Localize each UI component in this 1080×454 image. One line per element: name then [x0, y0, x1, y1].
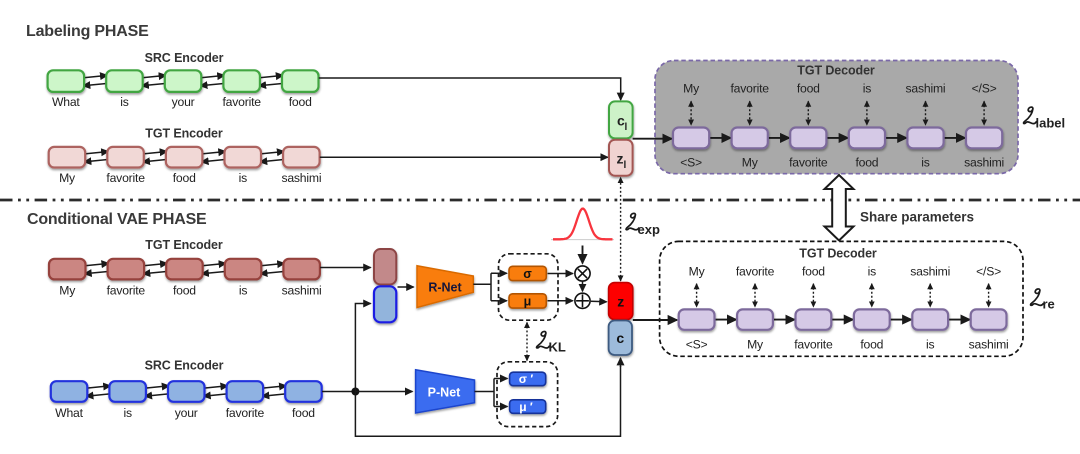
bot-dec output arrow 2 [754, 284, 756, 307]
wire: junction to P-Net [355, 391, 412, 393]
bot-dec output arrow 3 [812, 284, 814, 307]
bot-dec output arrow 1 [696, 284, 698, 307]
R-Net trapezoid [417, 266, 473, 308]
svg-text:TGT Encoder: TGT Encoder [145, 127, 223, 141]
op oplus [575, 293, 590, 308]
svg-text:is: is [239, 171, 248, 185]
bottom TGT Decoder container [660, 241, 1023, 356]
svg-text:is: is [921, 156, 930, 170]
svg-text:σ ′: σ ′ [519, 372, 534, 386]
svg-text:TGT Decoder: TGT Decoder [799, 247, 877, 261]
wire: P-Net to sigma-prime/mu-prime bracket [475, 379, 499, 407]
TGT-enc-bot cell 5 [283, 259, 320, 280]
svg-text:food: food [289, 95, 312, 109]
svg-text:is: is [863, 82, 872, 96]
top-dec arrow 5-6 [943, 137, 966, 139]
TGT-enc-top link 2-3 [141, 152, 169, 162]
top-dec cell 2 [732, 128, 768, 149]
svg-text:food: food [860, 338, 883, 352]
TGT-enc-bot link 1-2 [83, 263, 111, 273]
bot-dec arrow 4-5 [889, 319, 912, 321]
node z_l [609, 140, 633, 176]
TGT-enc-bot link 2-3 [141, 263, 169, 273]
SRC-enc-bot link 3-4 [202, 386, 230, 396]
wire oplus to z [591, 300, 607, 303]
svg-text:μ ′: μ ′ [519, 400, 533, 414]
top-dec output arrow 1 [690, 101, 692, 125]
svg-text:<S>: <S> [686, 338, 708, 352]
bot-dec arrow 3-4 [830, 319, 853, 321]
svg-text:food: food [173, 284, 196, 298]
svg-text:sashimi: sashimi [906, 82, 946, 96]
svg-text:favorite: favorite [789, 156, 828, 170]
TGT-enc-bot link 3-4 [200, 263, 228, 273]
bot-dec arrow 1-2 [714, 319, 737, 321]
svg-text:My: My [689, 265, 706, 279]
top-dec arrow 4-5 [884, 137, 907, 139]
wire: junction up to q-blue box [355, 304, 358, 392]
SRC-enc-top cell 5 [282, 70, 319, 92]
node mu-prime [510, 400, 546, 414]
bot-dec cell 5 [912, 309, 948, 329]
top-dec arrow 3-4 [825, 137, 848, 139]
TGT-enc-bot cell 3 [166, 259, 203, 280]
svg-text:<S>: <S> [680, 156, 702, 170]
top-dec cell 5 [907, 128, 943, 149]
top-dec output arrow 3 [807, 101, 809, 125]
svg-text:z: z [617, 294, 624, 310]
bot-dec cell 6 [971, 309, 1007, 329]
wire: blue encoder to junction [322, 391, 355, 393]
top-dec cell 1 [673, 128, 709, 149]
bot-dec cell 2 [737, 309, 773, 329]
svg-text:sashimi: sashimi [282, 284, 322, 298]
svg-text:sashimi: sashimi [969, 338, 1009, 352]
TGT-enc-top link 3-4 [199, 152, 227, 162]
recognition params dashed box [499, 254, 559, 320]
svg-text:My: My [742, 156, 759, 170]
svg-text:c: c [616, 330, 624, 346]
svg-text:R-Net: R-Net [428, 281, 462, 295]
svg-text:</S>: </S> [972, 82, 997, 96]
svg-text:favorite: favorite [223, 95, 262, 109]
L_exp dotted arrow z to z_l [620, 178, 622, 281]
svg-text:TGT Encoder: TGT Encoder [145, 238, 223, 252]
node: recognition blue box [374, 286, 396, 322]
TGT-enc-top link 1-2 [82, 152, 110, 162]
SRC-enc-top link 2-3 [140, 75, 168, 85]
svg-text:favorite: favorite [731, 82, 770, 96]
top-dec cell 6 [966, 128, 1002, 149]
SRC-enc-bot cell 1 [51, 381, 88, 402]
svg-text:Labeling PHASE: Labeling PHASE [26, 23, 149, 40]
svg-text:exp: exp [638, 222, 660, 237]
node c [609, 321, 632, 356]
svg-text:favorite: favorite [794, 338, 833, 352]
gaussian curve [551, 209, 614, 240]
svg-text:sashimi: sashimi [910, 265, 950, 279]
junction node [351, 388, 359, 396]
top-dec output arrow 4 [866, 101, 868, 125]
node: recognition pink box [374, 249, 396, 285]
top TGT Decoder container [655, 61, 1018, 174]
TGT-enc-top link 4-5 [258, 152, 286, 162]
svg-text:is: is [123, 406, 132, 420]
wire: gaussian to otimes [582, 246, 584, 264]
P-Net trapezoid [416, 370, 475, 413]
wire: z/c to bottom decoder [633, 319, 677, 321]
top-dec output arrow 5 [925, 101, 927, 125]
svg-text:is: is [868, 265, 877, 279]
svg-text:favorite: favorite [107, 284, 146, 298]
svg-text:favorite: favorite [106, 171, 145, 185]
bot-dec arrow 5-6 [947, 319, 970, 321]
wire: green encoder to c_l [319, 78, 621, 94]
TGT-enc-top cell 1 [49, 147, 85, 168]
loss L_exp [626, 213, 660, 237]
share parameters hollow arrow [825, 175, 854, 241]
svg-text:σ: σ [523, 267, 532, 281]
bot-dec arrow 2-3 [772, 319, 795, 321]
svg-text:sashimi: sashimi [281, 171, 321, 185]
bot-dec output arrow 4 [871, 284, 873, 307]
TGT-enc-top cell 4 [225, 147, 262, 168]
svg-text:KL: KL [549, 340, 566, 355]
bot-dec cell 3 [796, 309, 832, 329]
node c_l [609, 101, 633, 138]
svg-text:l: l [625, 122, 628, 133]
wire: R-Net to sigma/mu bracket [473, 273, 496, 301]
svg-text:your: your [175, 406, 198, 420]
top-dec output arrow 2 [749, 101, 751, 125]
svg-text:is: is [926, 338, 935, 352]
svg-text:favorite: favorite [736, 265, 775, 279]
prior params dashed box [497, 362, 558, 427]
top-dec arrow 1-2 [708, 137, 731, 139]
svg-text:food: food [855, 156, 878, 170]
svg-text:</S>: </S> [976, 265, 1001, 279]
svg-text:What: What [52, 95, 80, 109]
svg-text:What: What [55, 406, 83, 420]
SRC-enc-top link 4-5 [257, 75, 285, 85]
wire otimes to oplus [582, 281, 584, 291]
SRC-enc-bot cell 5 [285, 381, 322, 402]
svg-text:label: label [1036, 116, 1066, 131]
wire: pink encoder to z_l [320, 156, 608, 158]
node z [609, 283, 633, 320]
top-dec arrow 2-3 [767, 137, 790, 139]
TGT-enc-bot cell 1 [49, 259, 86, 280]
TGT-enc-top cell 5 [283, 147, 320, 168]
L_KL dashed arrow [526, 323, 528, 361]
svg-text:P-Net: P-Net [428, 386, 461, 400]
bot-dec cell 1 [679, 309, 715, 329]
svg-text:is: is [239, 284, 248, 298]
wire: junction down and right to c [355, 366, 620, 436]
svg-text:My: My [683, 82, 700, 96]
SRC-enc-bot cell 2 [109, 381, 145, 402]
TGT-enc-bot link 4-5 [258, 263, 286, 273]
phase divider line [0, 199, 1080, 202]
svg-text:re: re [1043, 297, 1055, 312]
top-dec cell 4 [849, 128, 885, 149]
svg-text:l: l [624, 160, 627, 171]
node mu [509, 294, 546, 309]
svg-text:My: My [59, 171, 76, 185]
svg-text:My: My [59, 284, 76, 298]
SRC-enc-bot link 4-5 [260, 386, 288, 396]
svg-text:Share parameters: Share parameters [860, 210, 974, 225]
SRC-enc-bot link 2-3 [143, 386, 171, 396]
SRC-enc-top cell 1 [48, 70, 85, 92]
svg-text:SRC Encoder: SRC Encoder [145, 51, 224, 65]
svg-text:Conditional VAE PHASE: Conditional VAE PHASE [27, 211, 207, 228]
bot-dec cell 4 [854, 309, 890, 329]
svg-text:food: food [292, 406, 315, 420]
TGT-enc-bot cell 2 [108, 259, 145, 280]
svg-text:food: food [802, 265, 825, 279]
svg-text:your: your [172, 95, 195, 109]
TGT-enc-top cell 3 [166, 147, 203, 168]
top-dec output arrow 6 [983, 101, 985, 125]
svg-text:μ: μ [524, 295, 532, 309]
loss L_KL [537, 332, 566, 355]
TGT-enc-bot cell 4 [225, 259, 261, 280]
wire sigma to otimes [548, 273, 573, 275]
node sigma [509, 266, 546, 281]
svg-text:My: My [747, 338, 764, 352]
svg-text:is: is [120, 95, 129, 109]
node sigma-prime [510, 372, 546, 386]
SRC-enc-bot cell 4 [227, 381, 264, 402]
SRC-enc-top cell 3 [165, 70, 202, 92]
SRC-enc-top cell 2 [106, 70, 143, 92]
bot-dec output arrow 6 [988, 284, 990, 307]
wire: stacked boxes to R-Net [398, 286, 414, 288]
top-dec cell 3 [790, 128, 826, 149]
SRC-enc-bot cell 3 [168, 381, 205, 402]
svg-text:z: z [617, 151, 624, 167]
svg-text:sashimi: sashimi [964, 156, 1004, 170]
SRC-enc-top link 1-2 [81, 75, 109, 85]
TGT-enc-top cell 2 [107, 147, 144, 168]
wire: c_l/z_l to top decoder [633, 138, 672, 140]
loss L_re [1031, 289, 1055, 312]
wire mu to oplus [548, 300, 573, 302]
svg-text:food: food [173, 171, 196, 185]
svg-text:favorite: favorite [226, 406, 265, 420]
svg-text:food: food [797, 82, 820, 96]
SRC-enc-bot link 1-2 [84, 386, 112, 396]
SRC-enc-top cell 4 [223, 70, 260, 92]
loss L_label [1024, 107, 1066, 130]
SRC-enc-top link 3-4 [198, 75, 226, 85]
svg-text:TGT Decoder: TGT Decoder [797, 64, 875, 78]
wire: red encoder to r-pink box [320, 267, 371, 269]
op otimes [575, 266, 590, 281]
svg-text:SRC Encoder: SRC Encoder [145, 359, 224, 373]
bot-dec output arrow 5 [929, 284, 931, 307]
